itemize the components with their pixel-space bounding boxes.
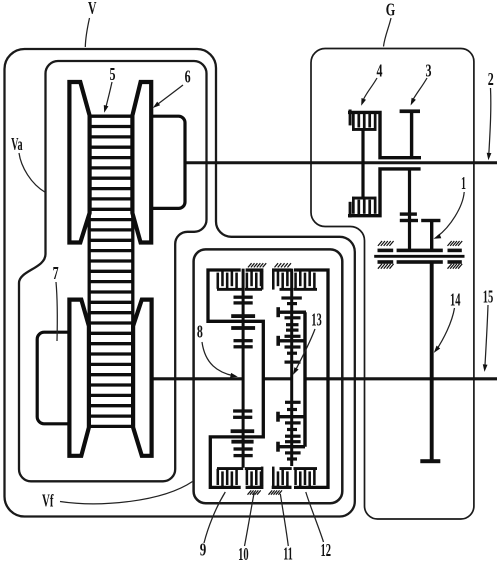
svg-text:4: 4 xyxy=(377,60,383,80)
clutch pack 12 lower half xyxy=(294,469,297,485)
leader 2 xyxy=(489,88,491,157)
case hatching below brake 10 xyxy=(248,490,252,494)
gears on left column (lower) xyxy=(233,409,252,412)
case hatching below brake 11 xyxy=(269,490,273,494)
secondary pulley cylinder 7 xyxy=(37,332,70,424)
gear 3 sleeve lower stem xyxy=(408,169,411,250)
gear cluster right column upper xyxy=(281,296,301,299)
svg-text:8: 8 xyxy=(197,321,203,341)
svg-text:15: 15 xyxy=(483,286,494,306)
output shaft segment between drum and gear stem xyxy=(262,377,293,380)
bearing block 1 (fixed to case, upper plate) xyxy=(378,249,394,253)
svg-text:13: 13 xyxy=(311,310,322,330)
case hatching above brake 10 xyxy=(248,263,252,267)
leader 12 xyxy=(306,492,324,542)
svg-text:12: 12 xyxy=(321,540,332,560)
leader 13 xyxy=(295,329,315,372)
leader 15 xyxy=(485,305,488,369)
gear 3 (on input shaft) xyxy=(400,109,420,113)
svg-text:14: 14 xyxy=(450,289,461,309)
leader 9 xyxy=(204,492,225,543)
output shaft segment to right end (label 15) xyxy=(304,377,497,380)
svg-text:G: G xyxy=(386,0,396,20)
bearing lower plate xyxy=(378,260,394,264)
housing V (outer variator case) xyxy=(5,49,355,517)
leader 3 xyxy=(412,78,427,102)
svg-text:5: 5 xyxy=(110,64,116,84)
brake pack 11 lower half xyxy=(272,486,292,489)
leader 11 xyxy=(280,494,288,546)
clutch 4 pack lower xyxy=(352,197,355,214)
input shaft (upper, to label 2) xyxy=(186,161,497,164)
leader V xyxy=(85,18,89,47)
clutch pack 12 upper half xyxy=(294,273,297,289)
gearbox housing G (right case with notch) xyxy=(311,48,474,519)
chamber Va (inner variator chamber boundary) xyxy=(19,61,207,481)
svg-text:Vf: Vf xyxy=(42,491,54,511)
leader 6 xyxy=(156,85,184,106)
svg-text:10: 10 xyxy=(238,544,249,563)
brake pack 10 lower half xyxy=(246,486,264,489)
svg-text:Va: Va xyxy=(11,134,23,154)
leader G xyxy=(384,18,392,47)
svg-text:9: 9 xyxy=(200,540,207,560)
case hatching above brake 11 xyxy=(275,263,279,267)
svg-text:11: 11 xyxy=(283,544,293,563)
clutch 4 hub stem xyxy=(361,130,364,199)
primary pulley cylinder 6 xyxy=(151,116,185,208)
svg-text:V: V xyxy=(88,0,97,18)
case hatching at bearing corners xyxy=(378,241,382,246)
gear 1 upper (idler to bearing) xyxy=(421,219,440,222)
svg-text:2: 2 xyxy=(488,69,494,89)
bearing middle race xyxy=(374,255,464,258)
forward unit box Vf (middle clutch housing) xyxy=(194,249,343,503)
gear cluster right column lower xyxy=(285,401,301,404)
output shaft (lower, to label 15) segment from pulley xyxy=(153,377,243,380)
leader 1 xyxy=(438,192,465,236)
leader 7 xyxy=(56,282,57,341)
leader Vf xyxy=(60,482,193,504)
clutch drum 13 (right column drum) xyxy=(294,270,328,487)
final gear 14 xyxy=(430,262,434,462)
svg-text:6: 6 xyxy=(185,67,191,87)
clutch 4 drum upper xyxy=(348,112,421,157)
leader Va xyxy=(19,153,46,193)
leader 4 xyxy=(362,78,377,102)
primary pulley left sheave xyxy=(69,82,89,243)
svg-text:1: 1 xyxy=(461,173,466,193)
clutch 4 drum lower xyxy=(348,169,421,216)
primary pulley right sheave (movable, item 6) xyxy=(132,82,151,243)
shaft of gear set 13 (right column stem) xyxy=(290,269,293,466)
clutch pack 9 lower half xyxy=(217,469,220,485)
clutch pack 9 upper half xyxy=(217,273,220,289)
gears on left column (upper) xyxy=(234,296,253,299)
shaft of gear set 8 (left column stem) xyxy=(242,269,245,468)
secondary pulley left sheave (item 7 side) xyxy=(69,300,89,456)
leader 5 xyxy=(105,82,112,110)
leader 14 xyxy=(436,308,454,350)
secondary pulley right sheave xyxy=(133,300,152,456)
svg-text:7: 7 xyxy=(53,263,59,283)
clutch 4 pack upper xyxy=(352,114,355,131)
leader 8 xyxy=(202,342,234,376)
brake pack 10 upper half xyxy=(246,268,264,271)
leader 10 xyxy=(245,492,255,546)
clutch drum 8 (S-shaped drum, left column) xyxy=(208,270,263,487)
svg-text:3: 3 xyxy=(426,60,432,80)
belt 5 (hatched band between pulleys) xyxy=(88,114,91,426)
brake pack 11 upper half xyxy=(272,268,292,271)
